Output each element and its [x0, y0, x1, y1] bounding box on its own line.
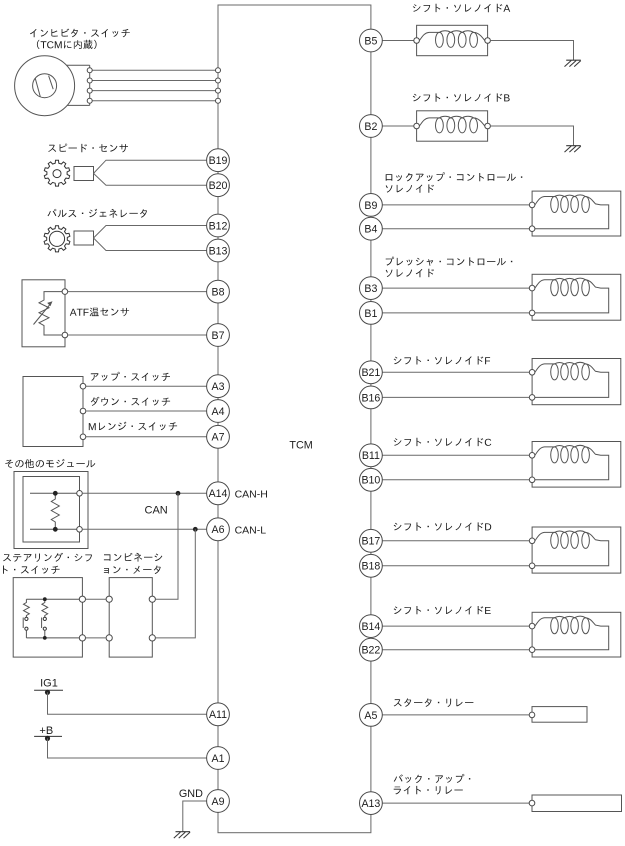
svg-text:B20: B20 [209, 180, 228, 192]
svg-text:CAN-H: CAN-H [235, 489, 268, 501]
svg-text:B21: B21 [361, 367, 380, 379]
pin A13 [360, 792, 383, 815]
wire steering to meter (lower) [86, 637, 107, 639]
other modules label [5, 459, 95, 468]
pin B21 [360, 361, 383, 384]
svg-text:A4: A4 [212, 406, 225, 418]
shift solenoid D label [394, 522, 492, 530]
pin B8 [207, 280, 230, 303]
pulse generator label [48, 209, 148, 218]
shift solenoid A (coil in box) [414, 25, 491, 55]
svg-text:B5: B5 [364, 35, 377, 47]
svg-text:A6: A6 [212, 524, 225, 536]
wire upper pin to shift solenoid C [382, 454, 529, 456]
lock-up control solenoid label [386, 172, 523, 181]
wire lower pin to shift solenoid E [382, 649, 529, 651]
svg-text:A3: A3 [212, 381, 225, 393]
wire solenoid A to ground [490, 41, 573, 61]
shift solenoid F label [394, 356, 490, 364]
pin A14 [207, 482, 230, 505]
M-range switch label [89, 422, 177, 431]
lock-up control solenoid [529, 191, 621, 236]
pin B22 [360, 638, 383, 661]
pin B11 [360, 444, 383, 467]
svg-text:B4: B4 [364, 224, 377, 236]
shift solenoid C label [394, 438, 492, 446]
wire B-pin to solenoid A [382, 40, 414, 42]
svg-text:B9: B9 [364, 200, 377, 212]
wire A9 to ground [183, 801, 207, 832]
pin A7 [207, 425, 230, 448]
svg-text:GND: GND [179, 788, 203, 800]
wire inhibitor-1 [87, 68, 220, 73]
pin B19 [207, 149, 230, 172]
svg-text:A7: A7 [212, 432, 225, 444]
steering shift switch box SW2 [13, 578, 85, 658]
wire A13 to back-up light relay [382, 802, 529, 804]
ATF temperature sensor RT1 [22, 280, 68, 347]
ground chassis (left) [174, 832, 190, 838]
wire meter to CAN-L junction [155, 529, 195, 638]
pin B2 [360, 115, 383, 138]
pin B3 [360, 277, 383, 300]
svg-text:IG1: IG1 [40, 677, 58, 689]
wire CAN-L to A6 [82, 528, 206, 530]
svg-text:A11: A11 [209, 709, 227, 721]
speed sensor G1 [44, 160, 93, 186]
pin A5 [360, 704, 383, 727]
shift solenoid F [529, 359, 621, 405]
pin B16 [360, 386, 383, 409]
pin A4 [207, 400, 230, 423]
ground chassis [565, 146, 581, 152]
junction CAN-H [176, 491, 181, 496]
wire inhibitor-4 [87, 98, 220, 103]
pin A11 [207, 703, 230, 726]
svg-text:B22: B22 [361, 645, 380, 657]
speed sensor label [48, 144, 128, 153]
inhibitor switch label [30, 29, 130, 38]
ground chassis [565, 60, 581, 66]
shift solenoid B label [413, 93, 510, 101]
power feed +B [34, 736, 62, 741]
pin B17 [360, 529, 383, 552]
shift solenoid E label [394, 606, 491, 614]
svg-text:A1: A1 [212, 753, 225, 765]
wire ATF to B8 [68, 291, 207, 293]
svg-text:B2: B2 [364, 121, 377, 133]
svg-text:B7: B7 [212, 330, 225, 342]
pin B18 [360, 554, 383, 577]
wire lower pin to shift solenoid F [382, 396, 529, 398]
pin B14 [360, 615, 383, 638]
wire pulse-generator to B12 [94, 226, 207, 239]
wire pulse-generator to B13 [94, 238, 207, 251]
svg-text:B12: B12 [209, 220, 228, 232]
down switch label [91, 397, 170, 406]
wire down-switch to A4 [86, 410, 207, 412]
up switch label [91, 372, 170, 381]
pressure control solenoid [529, 274, 621, 320]
starter relay label [394, 698, 474, 707]
pressure control solenoid label [386, 257, 513, 266]
pulse generator G2 [44, 226, 93, 252]
pin B1 [360, 302, 383, 325]
wire lower pin to shift solenoid C [382, 479, 529, 481]
pin A9 [207, 790, 230, 813]
wire lower pin to lock-up control solenoid [382, 228, 529, 230]
wire lower pin to shift solenoid D [382, 565, 529, 567]
svg-text:B17: B17 [361, 536, 380, 548]
svg-text:B11: B11 [362, 450, 380, 462]
svg-text:A5: A5 [364, 710, 377, 722]
pin B7 [207, 324, 230, 347]
svg-text:B1: B1 [364, 308, 377, 320]
back-up light relay K2 [529, 795, 621, 812]
svg-text:B19: B19 [209, 155, 228, 167]
wire B-pin to solenoid B [382, 125, 414, 127]
svg-text:TCM: TCM [289, 439, 312, 451]
wire speed-sensor to B20 [94, 173, 207, 185]
svg-text:B18: B18 [361, 561, 380, 573]
pin B20 [207, 174, 230, 197]
wire solenoid B to ground [490, 126, 573, 146]
svg-text:A14: A14 [209, 488, 228, 500]
combination meter box M1 [106, 578, 155, 658]
combination meter label [104, 553, 162, 562]
svg-text:B13: B13 [209, 245, 228, 257]
pin A6 [207, 518, 230, 541]
wire M-range-switch to A7 [86, 436, 207, 438]
pin B9 [360, 194, 383, 217]
svg-text:A9: A9 [212, 796, 225, 808]
power feed IG1 [34, 690, 63, 695]
other modules box with CAN terminator R1 [14, 472, 88, 549]
TCM module box U1 [218, 5, 371, 833]
svg-text:+B: +B [39, 725, 53, 737]
wire upper pin to shift solenoid D [382, 540, 529, 542]
shift solenoid A label [413, 4, 510, 12]
svg-text:B16: B16 [361, 392, 380, 404]
wire A5 to starter relay [382, 714, 529, 716]
pin A1 [207, 747, 230, 770]
svg-text:B14: B14 [361, 621, 380, 633]
wire upper pin to lock-up control solenoid [382, 204, 529, 206]
wire up-switch to A3 [86, 385, 207, 387]
wire upper pin to pressure control solenoid [382, 287, 529, 289]
starter relay K1 [529, 707, 587, 723]
wire lower pin to pressure control solenoid [382, 312, 529, 314]
junction CAN-L [193, 527, 198, 532]
shift solenoid E [529, 612, 621, 657]
shift switch module box [23, 377, 86, 447]
pin A3 [207, 375, 230, 398]
wire upper pin to shift solenoid E [382, 625, 529, 627]
svg-text:B3: B3 [364, 283, 377, 295]
pin B12 [207, 214, 230, 237]
wire IG1 to A11 [48, 692, 207, 714]
pin B5 [360, 29, 383, 52]
wire CAN-H to A14 [82, 492, 206, 494]
svg-text:CAN: CAN [145, 505, 168, 517]
pin B10 [360, 468, 383, 491]
svg-text:A13: A13 [361, 798, 380, 810]
wire +B to A1 [48, 738, 207, 758]
shift solenoid B (coil in box) [414, 111, 491, 141]
steering shift switch label [3, 553, 92, 562]
pin B4 [360, 217, 383, 240]
wire meter to CAN-H junction [155, 493, 178, 599]
wire ATF to B7 [68, 334, 207, 336]
wire upper pin to shift solenoid F [382, 371, 529, 373]
wire speed-sensor to B19 [94, 160, 207, 173]
inhibitor switch SW1 [15, 56, 90, 116]
wire inhibitor-3 [87, 88, 220, 93]
svg-text:B10: B10 [361, 475, 380, 487]
wire inhibitor-2 [87, 78, 220, 83]
ATF sensor label [70, 308, 129, 317]
svg-text:B8: B8 [212, 287, 225, 299]
shift solenoid C [529, 442, 621, 488]
back-up light relay label [394, 774, 471, 783]
pin B13 [207, 239, 230, 262]
shift solenoid D [529, 527, 621, 573]
svg-text:CAN-L: CAN-L [235, 524, 267, 536]
wire steering to meter (upper) [86, 598, 107, 600]
